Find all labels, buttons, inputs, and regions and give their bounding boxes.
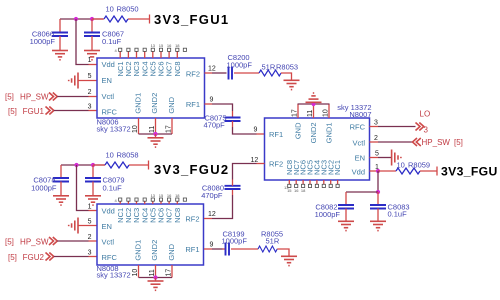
svg-text:16: 16: [167, 43, 172, 48]
wire: [378, 170, 396, 172]
ground: [338, 221, 354, 230]
svg-text:51R: 51R: [262, 63, 276, 72]
svg-text:1000pF: 1000pF: [315, 210, 341, 219]
svg-text:GND: GND: [167, 96, 176, 113]
svg-text:18: 18: [175, 43, 180, 48]
junction: [376, 190, 380, 194]
wire: [89, 240, 98, 242]
svg-text:0.1uF: 0.1uF: [388, 210, 408, 219]
wire: [378, 157, 391, 159]
svg-text:13: 13: [151, 43, 156, 48]
port LO: [416, 110, 431, 135]
wire top power rail: [60, 18, 103, 20]
resistor R8059: [396, 161, 430, 175]
wire: [89, 256, 98, 258]
NC no-connect row: [115, 43, 187, 58]
svg-text:RF1: RF1: [185, 245, 199, 254]
ground EN left: [69, 218, 78, 234]
wire: [378, 126, 416, 128]
svg-text:GND: GND: [167, 243, 176, 260]
svg-text:16: 16: [294, 188, 299, 193]
capacitor C8083: [370, 203, 410, 222]
svg-text:10: 10: [132, 269, 139, 277]
svg-text:0.1uF: 0.1uF: [103, 184, 123, 193]
wire C8067 drop: [91, 19, 93, 33]
svg-text:17: 17: [166, 269, 173, 277]
ground: [148, 138, 164, 147]
wire GND stubs: [139, 265, 173, 278]
svg-text:12: 12: [208, 66, 216, 73]
svg-text:10: 10: [106, 5, 114, 14]
port HP_SW bottom: [5, 237, 57, 247]
svg-text:RFC: RFC: [102, 108, 118, 117]
svg-text:LO: LO: [420, 110, 431, 119]
wire: [232, 121, 234, 127]
junction: [153, 132, 157, 136]
net 3V3_FGU1: [150, 12, 230, 27]
wire Vdd down: [377, 171, 379, 192]
wire RF1 out: [204, 248, 212, 250]
port HP_SW: [5, 93, 57, 102]
svg-text:15: 15: [159, 43, 164, 48]
capacitor C8200: [227, 53, 253, 80]
svg-text:HP_SW: HP_SW: [20, 238, 49, 247]
IC U8006 box: [97, 58, 205, 118]
svg-text:[5]: [5]: [8, 107, 17, 116]
svg-text:5: 5: [88, 73, 92, 80]
wire: [212, 195, 233, 219]
svg-text:Vdd: Vdd: [102, 207, 115, 216]
svg-text:0.1uF: 0.1uF: [102, 37, 122, 46]
pin names NC1-NC8: [116, 208, 182, 223]
wire EN: [79, 80, 98, 82]
svg-text:RF2: RF2: [269, 160, 283, 169]
svg-text:3: 3: [88, 250, 92, 257]
junction: [311, 102, 315, 106]
svg-text:[5]: [5]: [5, 93, 14, 102]
svg-text:16: 16: [167, 193, 172, 198]
capacitor C8067: [84, 30, 124, 51]
svg-text:3V3_FGU: 3V3_FGU: [441, 165, 498, 179]
svg-text:Vdd: Vdd: [352, 168, 365, 177]
svg-text:1: 1: [88, 57, 92, 64]
junction: [74, 17, 78, 21]
svg-text:470pF: 470pF: [201, 191, 223, 200]
wire Vdd U1: [76, 19, 89, 65]
ground: [84, 51, 100, 60]
svg-text:3V3_FGU1: 3V3_FGU1: [154, 12, 229, 27]
resistor R8055: [258, 230, 283, 253]
svg-text:NC8: NC8: [173, 208, 182, 223]
svg-text:sky 13372: sky 13372: [97, 271, 131, 280]
capacitor C8066: [30, 30, 68, 51]
svg-text:3: 3: [374, 120, 378, 127]
wire: [346, 191, 378, 193]
svg-text:GND1: GND1: [325, 123, 334, 144]
svg-text:9: 9: [210, 97, 214, 104]
wire: [420, 170, 437, 172]
junction: [74, 163, 78, 167]
svg-text:NC1: NC1: [333, 160, 342, 175]
svg-text:11: 11: [149, 269, 156, 276]
NC no-connect row bottom: [284, 180, 339, 193]
wire: [89, 64, 98, 66]
wire: [155, 134, 157, 138]
wire: [232, 111, 234, 118]
wire Vctl: [57, 96, 88, 98]
svg-text:10: 10: [323, 109, 330, 117]
wire: [212, 72, 227, 74]
wire Vctl out: [370, 141, 379, 143]
junction: [91, 163, 95, 167]
wire: [232, 189, 234, 195]
wire EN: [79, 225, 98, 227]
ground: [85, 196, 101, 205]
svg-text:RFC: RFC: [350, 123, 366, 132]
wire: [378, 141, 413, 143]
capacitor C8079: [85, 176, 125, 196]
pin names GND1 GND2 GND: [134, 240, 177, 261]
svg-text:470pF: 470pF: [204, 121, 226, 130]
wire: [234, 72, 259, 74]
wire RFC: [54, 110, 89, 112]
wire: [257, 163, 265, 165]
ground: [281, 256, 297, 265]
wire EN out: [370, 157, 379, 159]
IC N8008 box: [97, 204, 204, 265]
svg-text:[5]: [5]: [5, 238, 14, 247]
svg-text:FGU2: FGU2: [23, 253, 45, 262]
wire C8078 drop: [60, 165, 62, 178]
wire C8083 drop: [377, 192, 379, 205]
svg-text:1: 1: [88, 204, 92, 211]
svg-text:EN: EN: [102, 76, 112, 85]
svg-text:3: 3: [424, 126, 429, 135]
svg-text:18: 18: [175, 193, 180, 198]
svg-text:RF1: RF1: [186, 100, 200, 109]
junction: [153, 275, 157, 279]
wire: [155, 278, 157, 282]
svg-text:GND2: GND2: [309, 123, 318, 144]
wire C8082 drop: [345, 192, 347, 205]
svg-text:9: 9: [254, 127, 258, 134]
svg-text:17: 17: [166, 125, 173, 133]
wire: [89, 210, 98, 212]
svg-text:15: 15: [287, 188, 292, 193]
svg-text:R8050: R8050: [117, 5, 139, 14]
ground up: [306, 93, 322, 102]
junction: [376, 169, 380, 173]
wire: [212, 248, 223, 250]
capacitor C8075: [204, 114, 241, 130]
wire C8079 drop: [92, 165, 94, 178]
svg-text:R8059: R8059: [408, 161, 430, 170]
svg-text:GND1: GND1: [134, 93, 143, 114]
svg-text:R8053: R8053: [276, 63, 298, 72]
svg-text:sky 13372: sky 13372: [97, 125, 131, 134]
svg-text:FGU1: FGU1: [23, 107, 45, 116]
wire GND bus: [139, 133, 173, 135]
wire: [212, 104, 233, 111]
svg-text:HP_SW: HP_SW: [422, 138, 451, 147]
svg-text:5: 5: [88, 219, 92, 226]
svg-text:2: 2: [88, 89, 92, 96]
svg-text:GND2: GND2: [150, 240, 159, 261]
wire: [233, 127, 257, 134]
wire: [223, 248, 226, 250]
wire: [233, 164, 257, 180]
svg-text:[5]: [5]: [454, 138, 463, 147]
ground EN right: [392, 150, 401, 166]
wire: [257, 133, 265, 135]
pin names NC1-NC8: [116, 62, 182, 77]
wire RFC out: [370, 126, 379, 128]
svg-text:18: 18: [301, 188, 306, 193]
wire: [281, 73, 292, 80]
wire top GND stubs: [298, 104, 329, 118]
port HP_SW right: [413, 138, 463, 147]
capacitor C8078: [31, 176, 69, 196]
wire: [232, 180, 234, 186]
wire RF1 out: [205, 103, 213, 105]
svg-text:10: 10: [132, 125, 139, 133]
junction: [90, 17, 94, 21]
svg-text:GND1: GND1: [134, 240, 143, 261]
svg-text:2: 2: [374, 135, 378, 142]
svg-text:51R: 51R: [266, 237, 280, 246]
svg-text:HP_SW: HP_SW: [20, 93, 49, 102]
pin names GND GND2 GND1: [294, 122, 334, 143]
resistor R8053: [259, 63, 298, 77]
svg-text:RFC: RFC: [102, 253, 118, 262]
svg-text:17: 17: [292, 109, 299, 117]
port FGU1: [8, 107, 54, 116]
wire Vdd out: [370, 170, 379, 172]
svg-text:Vctl: Vctl: [352, 139, 365, 148]
net 3V3_FGU: [437, 165, 498, 179]
ground EN left: [69, 73, 78, 89]
svg-text:15: 15: [159, 193, 164, 198]
ground: [148, 281, 164, 290]
svg-text:N8007: N8007: [349, 110, 371, 119]
pin names GND1 GND2 GND: [134, 93, 177, 114]
svg-text:GND: GND: [294, 122, 303, 139]
wire GND stubs: [139, 118, 173, 134]
svg-text:1000pF: 1000pF: [227, 61, 253, 70]
svg-text:Vctl: Vctl: [102, 92, 115, 101]
svg-text:1000pF: 1000pF: [222, 237, 248, 246]
svg-text:EN: EN: [355, 154, 365, 163]
svg-text:13: 13: [151, 193, 156, 198]
capacitor C8082: [315, 203, 354, 222]
capacitor C8199: [222, 230, 248, 256]
svg-text:12: 12: [208, 211, 216, 218]
wire: [89, 110, 98, 112]
svg-text:5: 5: [375, 151, 379, 158]
svg-text:9: 9: [210, 242, 214, 249]
svg-text:3: 3: [88, 104, 92, 111]
svg-text:[5]: [5]: [8, 253, 17, 262]
svg-text:3V3_FGU2: 3V3_FGU2: [154, 162, 229, 177]
NC no-connect row: [115, 193, 187, 204]
ground: [284, 80, 300, 89]
svg-text:RF2: RF2: [185, 215, 199, 224]
wire: [231, 248, 258, 250]
svg-text:Vctl: Vctl: [102, 238, 115, 247]
svg-text:2: 2: [88, 234, 92, 241]
svg-text:10: 10: [106, 151, 114, 160]
svg-text:12: 12: [251, 157, 259, 164]
capacitor C8080: [201, 184, 240, 201]
svg-text:GND2: GND2: [150, 93, 159, 114]
wire Vdd U8008: [77, 165, 89, 211]
wire Vctl: [57, 240, 88, 242]
resistor R8058: [93, 151, 149, 169]
svg-text:Vdd: Vdd: [102, 60, 115, 69]
wire top GND bus: [298, 103, 330, 105]
pin names NC8-NC1: [285, 160, 342, 175]
svg-text:11: 11: [149, 126, 156, 133]
wire RF2 out: [205, 72, 213, 74]
svg-text:10: 10: [397, 161, 405, 170]
wire RF2 out: [204, 218, 212, 220]
svg-text:RF1: RF1: [269, 130, 283, 139]
wire C8066 drop: [59, 19, 61, 33]
net 3V3_FGU2: [149, 161, 230, 178]
svg-text:NC8: NC8: [173, 62, 182, 77]
svg-text:RF2: RF2: [186, 70, 200, 79]
wire: [277, 249, 289, 256]
IC N8007 box: [265, 118, 370, 180]
wire RFC: [54, 256, 89, 258]
ground: [370, 221, 386, 230]
wire: [89, 96, 98, 98]
resistor R8050: [92, 5, 150, 23]
ground: [52, 51, 68, 60]
svg-text:1000pF: 1000pF: [30, 37, 56, 46]
svg-text:EN: EN: [102, 222, 112, 231]
wire bottom power rail: [61, 164, 105, 166]
svg-text:11: 11: [307, 110, 314, 117]
ground: [53, 196, 69, 205]
svg-text:R8058: R8058: [117, 151, 139, 160]
wire GND bus: [139, 277, 173, 279]
svg-text:1000pF: 1000pF: [31, 184, 57, 193]
port FGU2: [8, 253, 54, 262]
